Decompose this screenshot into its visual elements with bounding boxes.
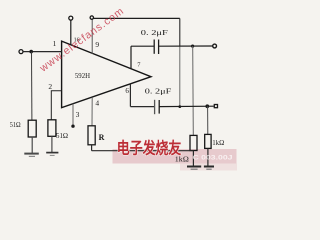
svg-text:0. 2μF: 0. 2μF — [141, 29, 168, 37]
ground under R1 — [24, 153, 39, 155]
svg-text:3: 3 — [76, 110, 80, 119]
pin 3 stub wire — [72, 104, 74, 125]
svg-text:C 003.00J: C 003.00J — [193, 155, 234, 162]
svg-text:2: 2 — [48, 82, 52, 91]
resistor R4 1kohm — [205, 134, 211, 148]
junction output- — [205, 104, 209, 108]
junction output+ — [191, 45, 194, 48]
pin 3 node dot — [71, 125, 74, 128]
wire R1 to ground — [31, 137, 33, 153]
wire down to R1 — [31, 52, 33, 121]
watermark band — [113, 149, 237, 164]
wire C1 to output terminal — [159, 45, 213, 47]
wire junction down to R3 — [192, 46, 195, 135]
junction node at input — [29, 50, 33, 54]
wire junction down to R4 — [207, 106, 209, 134]
pin 2 wire — [51, 91, 61, 120]
feedback rail top wire — [94, 17, 180, 19]
wire R3 to ground — [192, 151, 194, 167]
ground under R2 — [46, 152, 58, 154]
pin 4 wire down — [91, 97, 93, 125]
svg-text:592H: 592H — [75, 72, 90, 80]
pin 9 wire up — [91, 19, 93, 54]
svg-text:6: 6 — [125, 87, 129, 95]
pin 6 wire down — [129, 84, 131, 107]
wire R4 to ground — [207, 148, 209, 166]
ground under R3 — [187, 166, 201, 168]
op-amp U1 592H triangle — [62, 41, 151, 108]
svg-text:电子发烧友: 电子发烧友 — [117, 138, 182, 157]
output- terminal — [214, 105, 217, 108]
junction rail to lower output wire — [178, 105, 181, 108]
svg-text:9: 9 — [95, 40, 99, 49]
svg-text:R: R — [99, 133, 105, 142]
wire pin7 to C1 — [131, 45, 154, 47]
pin 9 terminal — [90, 16, 93, 19]
pin 16 terminal — [69, 16, 73, 20]
resistor R emitter — [88, 126, 95, 145]
input terminal (left) — [19, 50, 23, 54]
capacitor C2 0.2uF — [154, 100, 156, 114]
svg-text:1kΩ: 1kΩ — [212, 139, 224, 147]
resistor R3 1kohm — [190, 135, 197, 150]
ground under R4 — [204, 166, 214, 168]
wire input to pin 1 — [23, 51, 61, 53]
output+ terminal — [213, 44, 217, 48]
bottom wire R to R3 — [92, 150, 194, 152]
resistor R2 51ohm — [48, 120, 56, 137]
svg-text:4: 4 — [95, 99, 99, 108]
svg-text:1: 1 — [53, 39, 57, 48]
pin 7 wire up — [130, 46, 132, 69]
svg-text:0. 2μF: 0. 2μF — [145, 88, 172, 96]
resistor R1 51ohm — [28, 120, 36, 137]
wire R2 to ground — [51, 136, 53, 152]
feedback rail right wire down — [179, 18, 181, 46]
svg-text:51Ω: 51Ω — [10, 121, 21, 129]
wire R bottom — [91, 145, 93, 151]
capacitor C1 0.2uF — [153, 40, 155, 54]
pin 16 wire up — [70, 20, 72, 45]
svg-text:51Ω: 51Ω — [56, 132, 68, 140]
wire C2 to output- terminal — [159, 105, 214, 107]
wire pin6 to C2 — [130, 106, 154, 108]
